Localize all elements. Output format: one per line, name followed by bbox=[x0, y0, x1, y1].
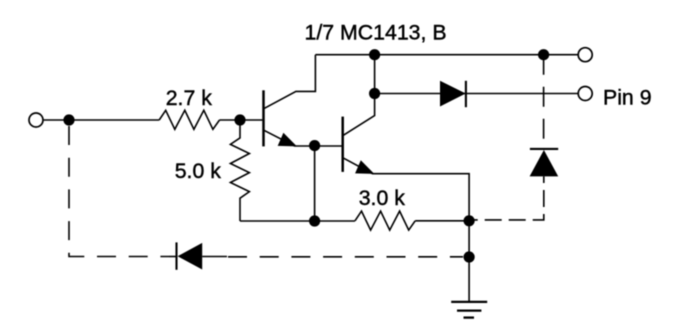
wire: input terminal to R1 bbox=[44, 119, 160, 121]
dashed wire: left vertical and bottom horizontal bbox=[69, 126, 169, 257]
svg-text:5.0 k: 5.0 k bbox=[175, 159, 222, 183]
transistor Q2 emitter arrow bbox=[355, 160, 374, 174]
dashed wire: from D2 down and left to bottom junction bbox=[469, 176, 544, 220]
pin 9 rail wire bbox=[375, 93, 578, 95]
wire: vertical Q2-base node to bottom rail bbox=[314, 146, 316, 221]
svg-text:3.0 k: 3.0 k bbox=[359, 186, 406, 210]
resistor R2 5.0 k (vertical) bbox=[230, 120, 249, 221]
transistor Q1 emitter wire to Q2 base bbox=[264, 130, 342, 146]
transistor Q1 emitter arrow bbox=[278, 133, 297, 147]
input terminal (open circle) bbox=[29, 113, 43, 127]
dashed wire: top right vertical from rail junction to D2 bbox=[543, 55, 545, 148]
node: dashed rail junction bbox=[464, 251, 475, 262]
wire: diode D3 right lead bbox=[202, 256, 227, 258]
svg-text:Pin 9: Pin 9 bbox=[603, 85, 652, 109]
diode D1 cathode bar bbox=[465, 81, 467, 107]
node: top rail / Q2 collector bbox=[369, 49, 380, 60]
svg-text:2.7 k: 2.7 k bbox=[166, 86, 213, 110]
dashed wire: bottom horizontal right of D3 bbox=[228, 256, 463, 258]
output terminal top (open circle) bbox=[578, 48, 592, 62]
transistor Q1 collector path to top rail bbox=[264, 55, 316, 109]
node: right bottom junction bbox=[464, 215, 475, 226]
wire: R3 to right junction bbox=[415, 220, 469, 222]
svg-text:1/7 MC1413, B: 1/7 MC1413, B bbox=[305, 20, 447, 44]
ground bbox=[451, 302, 487, 318]
node: bottom rail junction bbox=[309, 215, 320, 226]
node: Q1 emitter / Q2 base junction bbox=[309, 140, 320, 151]
node: top rail right junction bbox=[538, 49, 549, 60]
wire: R1 to Q1 base bbox=[220, 119, 263, 121]
diode D3 cathode bar bbox=[175, 242, 177, 269]
transistor Q2 collector path up to rails bbox=[343, 55, 375, 136]
resistor R3 3.0 k bbox=[355, 211, 415, 230]
node: input junction bbox=[63, 114, 74, 125]
diode D1 (series, pin 9 line) triangle bbox=[440, 81, 466, 107]
top rail wire bbox=[315, 54, 578, 56]
wire: bottom rail from R2 to R3 bbox=[240, 220, 355, 222]
resistor R1 2.7 k bbox=[159, 110, 219, 129]
node: Q1 base junction bbox=[234, 114, 245, 125]
diode D3 triangle (pointing left) bbox=[178, 243, 203, 270]
transistor Q1 bar bbox=[262, 90, 265, 146]
node: pin 9 rail / Q2 collector bbox=[369, 88, 380, 99]
diode D2 cathode bar bbox=[530, 148, 558, 150]
transistor Q2 emitter wire down to ground rail bbox=[343, 158, 469, 302]
diode D2 triangle (pointing up) bbox=[530, 150, 559, 176]
wire: diode D3 left lead bbox=[169, 256, 176, 258]
output terminal Pin 9 (open circle) bbox=[578, 87, 592, 101]
transistor Q2 bar bbox=[341, 117, 344, 172]
